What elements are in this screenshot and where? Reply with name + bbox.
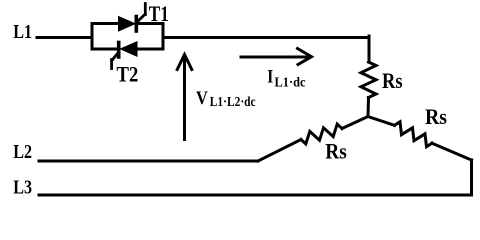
voltage arrow V_L1-L2-dc xyxy=(177,55,192,140)
wire corner down to resistor xyxy=(368,36,371,62)
label V_L1-L2-dc xyxy=(196,88,256,110)
wire L1 lead xyxy=(37,36,92,39)
svg-text:V: V xyxy=(196,88,208,109)
wire L3 line xyxy=(39,194,472,197)
resistor Rs right xyxy=(395,122,433,147)
wire right resistor to corner xyxy=(432,143,472,160)
current arrow I_L1-dc xyxy=(241,49,312,65)
svg-text:L1·L2·dc: L1·L2·dc xyxy=(210,95,256,110)
svg-text:L1: L1 xyxy=(13,21,32,43)
thyristor T1 xyxy=(119,4,146,32)
svg-text:L1·dc: L1·dc xyxy=(275,76,306,91)
resistor Rs top xyxy=(361,62,376,98)
wire top branch left xyxy=(92,22,120,25)
svg-text:I: I xyxy=(267,67,273,88)
wire node to right resistor xyxy=(368,117,395,126)
wire bottom branch right xyxy=(137,48,163,51)
wire L1 to corner xyxy=(163,36,369,39)
wire resistor to star node xyxy=(367,98,371,117)
wire right vertical to L3 xyxy=(470,160,473,195)
wire node to left resistor xyxy=(342,117,368,129)
resistor Rs left xyxy=(301,124,342,144)
svg-text:Rs: Rs xyxy=(382,68,403,93)
wire left resistor to L2 xyxy=(258,140,301,162)
svg-text:L3: L3 xyxy=(13,176,32,198)
label I_L1-dc xyxy=(267,67,305,91)
wire L2 line xyxy=(39,160,258,163)
wire bottom branch left xyxy=(92,48,119,51)
svg-text:T1: T1 xyxy=(149,1,169,26)
thyristor T2 xyxy=(112,42,137,69)
svg-text:Rs: Rs xyxy=(425,104,447,129)
wire thyristor box left vertical xyxy=(91,24,94,50)
wire thyristor box right vertical xyxy=(162,24,165,50)
svg-text:L2: L2 xyxy=(13,141,32,163)
svg-text:Rs: Rs xyxy=(325,138,347,163)
wire top branch right xyxy=(136,22,163,25)
svg-text:T2: T2 xyxy=(117,62,139,87)
